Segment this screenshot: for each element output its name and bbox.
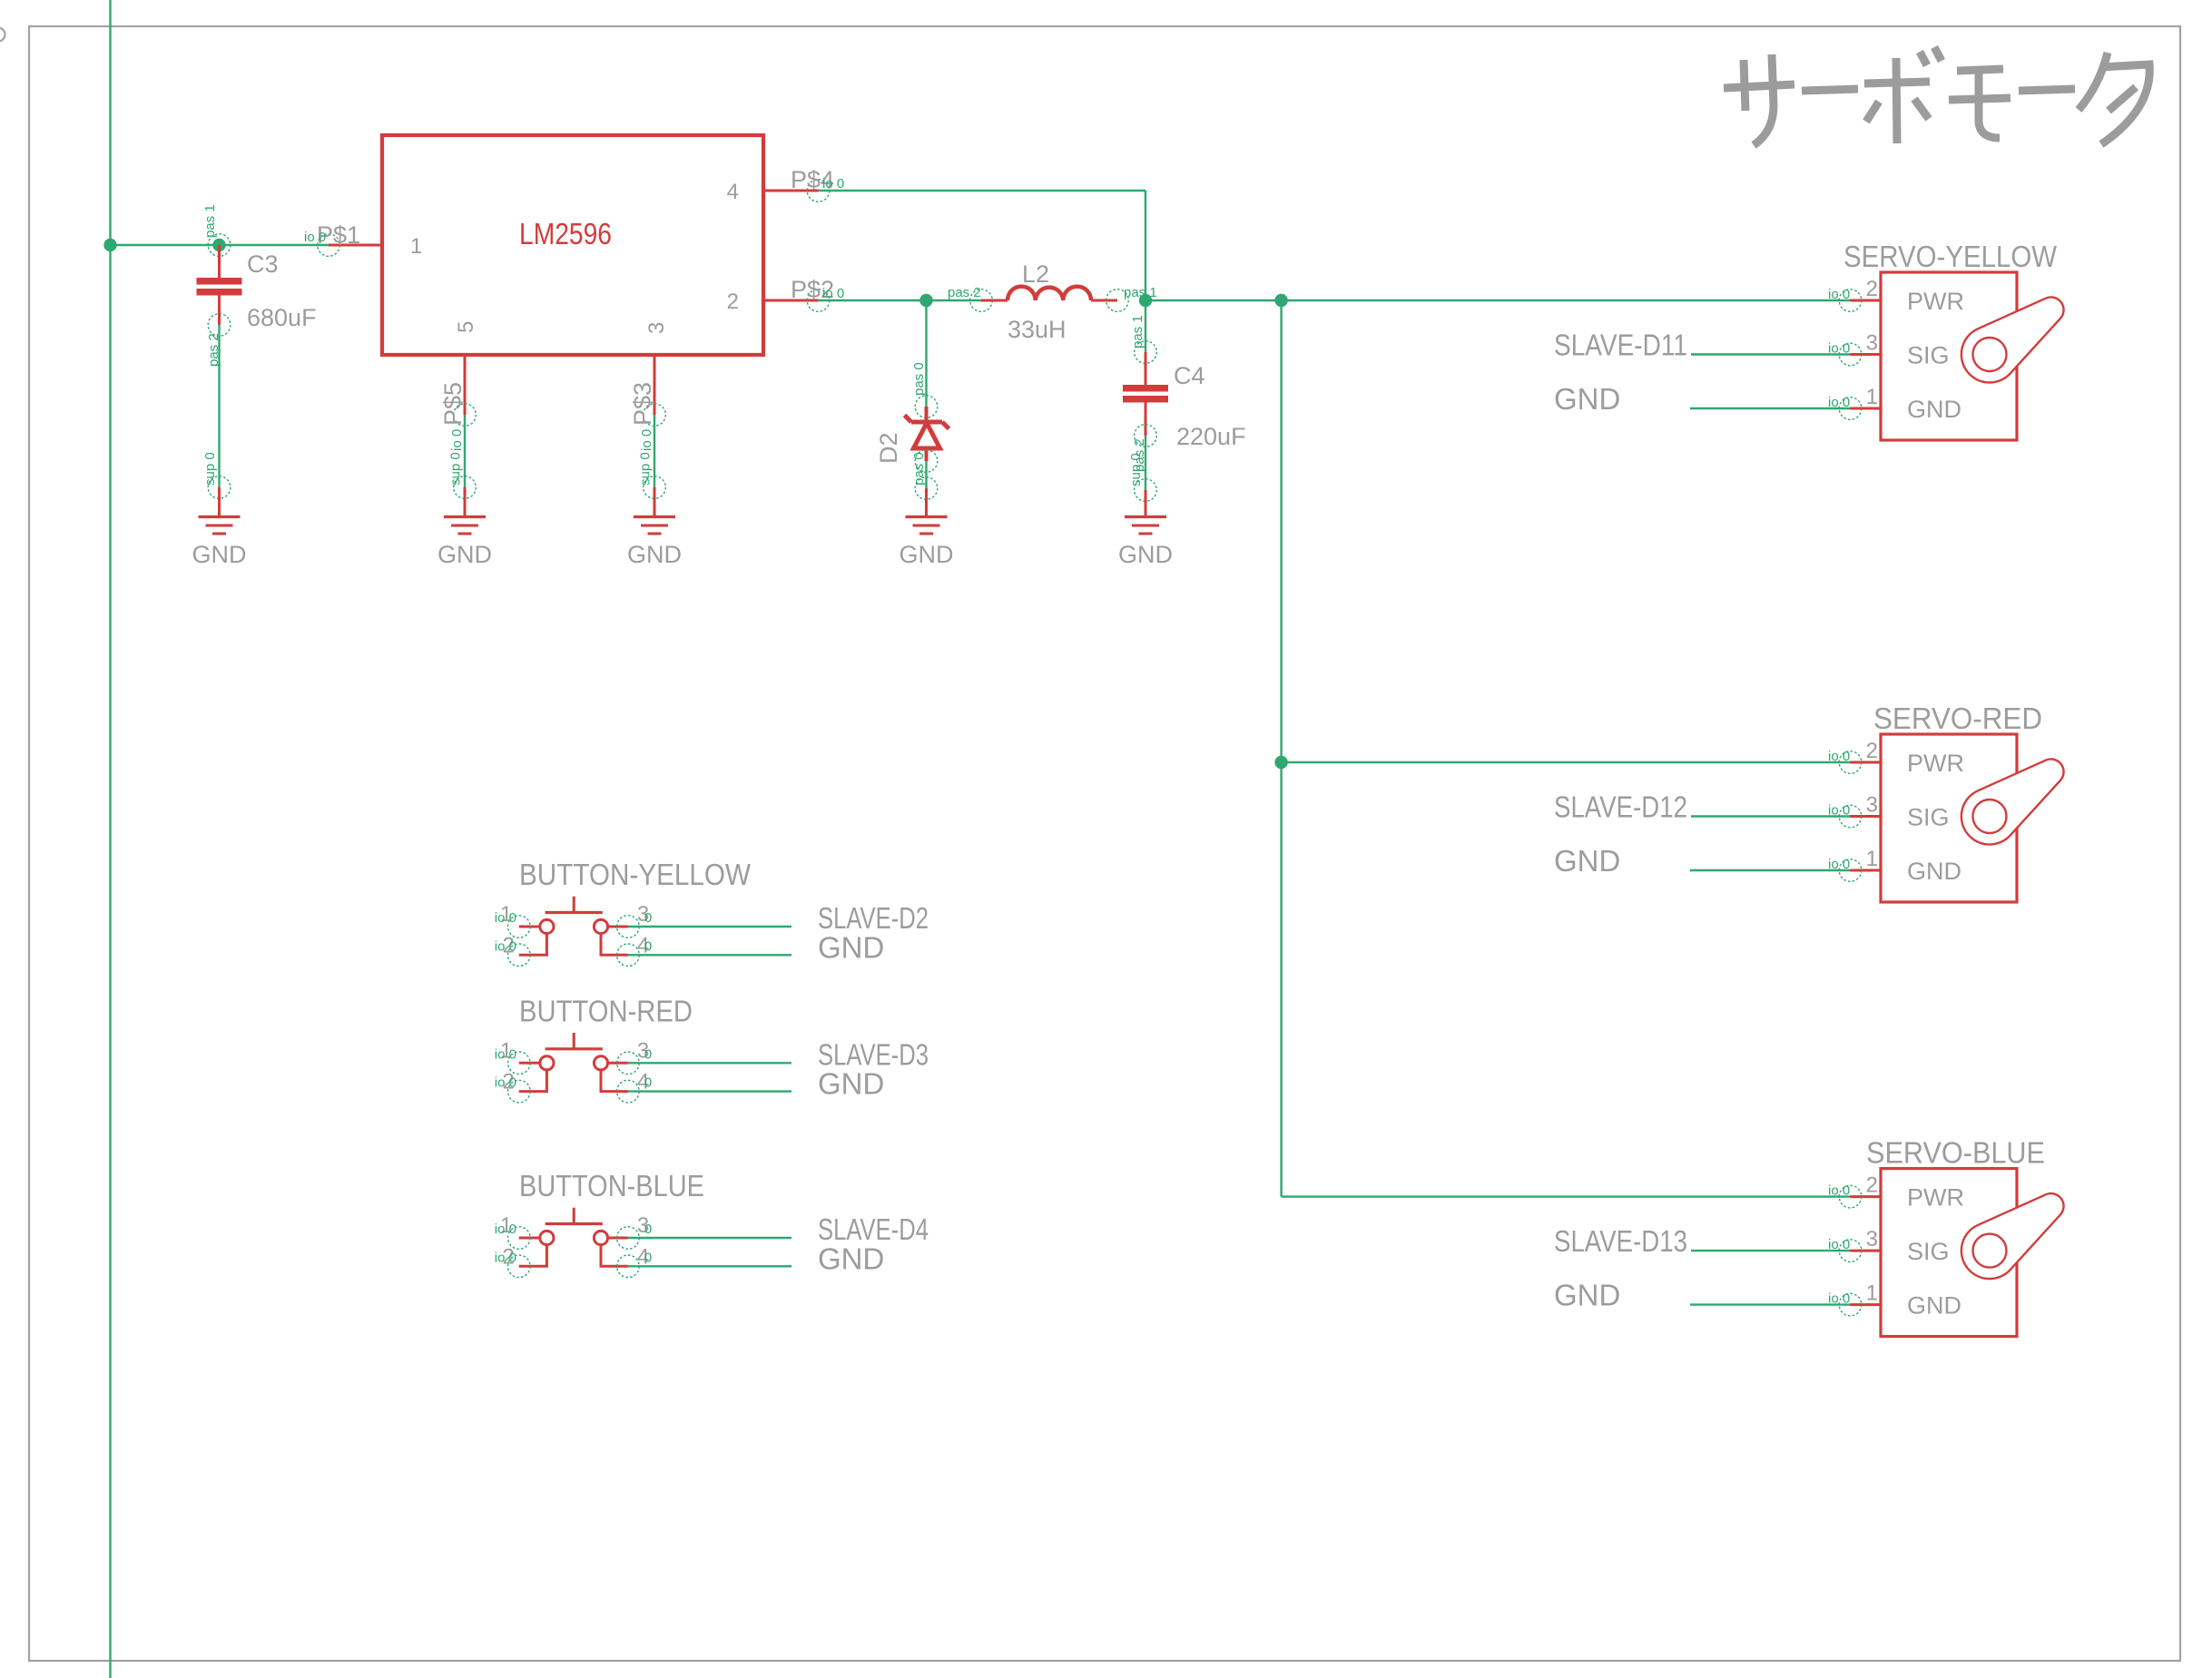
svg-text:LM2596: LM2596 bbox=[519, 217, 612, 250]
svg-text:pas 0: pas 0 bbox=[911, 362, 927, 396]
SERVO-RED pin 1 GND bbox=[1851, 869, 1882, 872]
svg-text:pas 1: pas 1 bbox=[202, 204, 218, 238]
svg-text:5: 5 bbox=[454, 321, 478, 333]
wire gnd net bbox=[628, 1265, 791, 1267]
svg-text:io 0: io 0 bbox=[1828, 1183, 1850, 1199]
svg-text:BUTTON-YELLOW: BUTTON-YELLOW bbox=[519, 858, 752, 891]
BUTTON-YELLOW pin 1 bbox=[519, 926, 540, 928]
SERVO-RED servo horn icon bbox=[1961, 759, 2064, 844]
svg-text:SIG: SIG bbox=[1907, 1238, 1950, 1265]
svg-text:33uH: 33uH bbox=[1008, 316, 1067, 343]
SERVO-YELLOW pin 3 SIG bbox=[1851, 353, 1882, 356]
svg-text:C3: C3 bbox=[247, 250, 279, 278]
BUTTON-RED actuator bbox=[573, 1033, 575, 1048]
wire gnd net bbox=[628, 954, 791, 956]
svg-text:sup 0: sup 0 bbox=[448, 452, 464, 486]
svg-text:pas 2: pas 2 bbox=[948, 285, 981, 300]
svg-text:0: 0 bbox=[644, 910, 652, 926]
svg-text:io 0: io 0 bbox=[822, 286, 844, 301]
svg-text:io 0: io 0 bbox=[495, 1075, 516, 1091]
SERVO-BLUE pin 3 SIG bbox=[1851, 1250, 1882, 1252]
wire GND stub bbox=[1690, 407, 1851, 409]
BUTTON-RED pin 1 bbox=[519, 1062, 540, 1065]
LM2596 pin 4 P$4 bbox=[763, 190, 819, 192]
svg-text:PWR: PWR bbox=[1907, 750, 1964, 777]
wire P$5 to GND bbox=[464, 415, 466, 487]
svg-text:220uF: 220uF bbox=[1176, 423, 1246, 450]
svg-text:io 0: io 0 bbox=[495, 1250, 516, 1265]
svg-text:GND: GND bbox=[818, 1067, 884, 1101]
svg-text:GND: GND bbox=[627, 541, 682, 568]
LM2596 pin 2 P$2 bbox=[763, 299, 819, 302]
svg-text:sup 0: sup 0 bbox=[638, 452, 654, 486]
svg-text:io 0: io 0 bbox=[1828, 749, 1850, 764]
svg-text:GND: GND bbox=[1118, 541, 1173, 568]
svg-text:SLAVE-D13: SLAVE-D13 bbox=[1554, 1224, 1687, 1258]
svg-text:io 0: io 0 bbox=[495, 1046, 516, 1062]
BUTTON-YELLOW pin 2 bbox=[546, 934, 548, 956]
wire SLAVE-D13 bbox=[1691, 1250, 1851, 1251]
wire GND stub bbox=[1690, 869, 1851, 871]
svg-text:0: 0 bbox=[644, 1046, 652, 1062]
title サーボモータ (drawn) bbox=[1724, 47, 2149, 145]
svg-text:GND: GND bbox=[1554, 382, 1620, 416]
wire SLAVE-D3 net bbox=[628, 1062, 791, 1064]
wire GND stub bbox=[1690, 1303, 1851, 1305]
svg-text:1: 1 bbox=[410, 234, 422, 259]
wire to SERVO-BLUE PWR bbox=[1282, 1195, 1851, 1197]
svg-text:BUTTON-BLUE: BUTTON-BLUE bbox=[519, 1169, 704, 1202]
node VOUT junction at C4 bbox=[1139, 294, 1152, 307]
svg-text:SLAVE-D11: SLAVE-D11 bbox=[1554, 329, 1687, 362]
svg-text:SIG: SIG bbox=[1907, 804, 1950, 831]
svg-text:SERVO-YELLOW: SERVO-YELLOW bbox=[1843, 240, 2058, 273]
BUTTON-BLUE pin 4 bbox=[600, 1245, 603, 1267]
frame corner marker bbox=[0, 28, 5, 42]
svg-text:0: 0 bbox=[644, 1075, 652, 1091]
node SW junction bbox=[919, 294, 932, 307]
capacitor C3 bbox=[208, 234, 231, 257]
svg-text:PWR: PWR bbox=[1907, 288, 1964, 315]
svg-text:io 0: io 0 bbox=[304, 230, 326, 245]
svg-text:SIG: SIG bbox=[1907, 342, 1950, 369]
svg-text:GND: GND bbox=[818, 930, 884, 964]
wire C4 to GND bbox=[1145, 436, 1146, 490]
wire SLAVE-D12 bbox=[1691, 815, 1851, 817]
svg-text:GND: GND bbox=[192, 541, 247, 568]
svg-text:SLAVE-D12: SLAVE-D12 bbox=[1554, 790, 1687, 824]
wire VIN trunk vertical bbox=[109, 0, 111, 1678]
wire P$3 to GND bbox=[654, 415, 655, 487]
svg-text:3: 3 bbox=[1866, 793, 1878, 818]
svg-text:SERVO-BLUE: SERVO-BLUE bbox=[1866, 1136, 2045, 1170]
capacitor C4 bbox=[1135, 341, 1157, 364]
BUTTON-RED pin 2 bbox=[546, 1070, 548, 1092]
svg-text:BUTTON-RED: BUTTON-RED bbox=[519, 994, 693, 1027]
wire down to D2 bbox=[925, 300, 927, 407]
svg-text:1: 1 bbox=[1866, 1281, 1878, 1306]
wire SLAVE-D11 bbox=[1691, 353, 1851, 355]
ground symbol at x=721 bbox=[634, 515, 675, 518]
LM2596 pin P$5 bbox=[464, 355, 467, 415]
SERVO-BLUE pin 1 GND bbox=[1851, 1303, 1882, 1306]
svg-text:680uF: 680uF bbox=[247, 304, 317, 331]
svg-text:sup 0: sup 0 bbox=[202, 452, 218, 486]
BUTTON-BLUE pin 1 bbox=[519, 1237, 540, 1240]
wire bus trunk down bbox=[1280, 300, 1282, 1197]
svg-text:io 0: io 0 bbox=[495, 938, 516, 954]
wire junction to C4 bbox=[1145, 300, 1146, 352]
svg-text:P$3: P$3 bbox=[629, 382, 656, 426]
node bus junction servo-red bbox=[1274, 756, 1287, 769]
svg-text:2: 2 bbox=[1866, 1173, 1878, 1198]
svg-text:0: 0 bbox=[644, 1250, 652, 1265]
svg-text:GND: GND bbox=[1554, 844, 1620, 878]
svg-text:P$5: P$5 bbox=[439, 382, 467, 426]
svg-text:2: 2 bbox=[727, 289, 739, 314]
wire SLAVE-D4 net bbox=[628, 1237, 791, 1239]
svg-text:3: 3 bbox=[644, 322, 669, 334]
svg-text:GND: GND bbox=[437, 541, 492, 568]
wire C3 to GND bbox=[218, 325, 220, 487]
wire VIN to C3/P$1 bbox=[111, 244, 329, 246]
ground symbol at x=241.5 bbox=[199, 515, 241, 518]
svg-text:0: 0 bbox=[644, 1222, 652, 1237]
SERVO-YELLOW pin 1 GND bbox=[1851, 407, 1882, 410]
wire SLAVE-D2 net bbox=[628, 926, 791, 927]
svg-text:GND: GND bbox=[1907, 858, 1961, 885]
ground symbol at x=1020.5 bbox=[906, 515, 948, 518]
SERVO-YELLOW servo horn icon bbox=[1961, 297, 2064, 382]
wire D2 to GND bbox=[925, 461, 927, 488]
svg-text:GND: GND bbox=[1907, 396, 1961, 423]
svg-text:C4: C4 bbox=[1174, 362, 1205, 389]
BUTTON-BLUE pin 2 bbox=[546, 1245, 548, 1267]
svg-text:GND: GND bbox=[1907, 1292, 1961, 1320]
ground symbol at x=512 bbox=[444, 515, 486, 518]
svg-text:io 0: io 0 bbox=[639, 429, 654, 451]
svg-text:io 0: io 0 bbox=[822, 176, 844, 191]
ground symbol at x=1262 bbox=[1125, 515, 1166, 518]
BUTTON-BLUE actuator bbox=[573, 1208, 575, 1223]
wire P$2 to L2 bbox=[819, 299, 982, 301]
SERVO-YELLOW pin 2 PWR bbox=[1851, 299, 1882, 302]
svg-text:D2: D2 bbox=[875, 432, 902, 464]
svg-text:0: 0 bbox=[644, 938, 652, 954]
LM2596 pin P$3 bbox=[654, 355, 656, 415]
svg-text:4: 4 bbox=[727, 180, 739, 204]
svg-text:GND: GND bbox=[1554, 1279, 1620, 1312]
svg-text:3: 3 bbox=[1866, 331, 1878, 356]
wire gnd net bbox=[628, 1090, 791, 1092]
SERVO-RED pin 3 SIG bbox=[1851, 815, 1882, 818]
wire P$4 to C4 node bbox=[819, 190, 1146, 191]
svg-text:GND: GND bbox=[900, 541, 954, 568]
wire to SERVO-RED PWR bbox=[1282, 761, 1851, 763]
op-amp/regulator U LM2596 bbox=[382, 135, 763, 355]
BUTTON-YELLOW actuator bbox=[573, 897, 575, 912]
svg-text:sup 0: sup 0 bbox=[1128, 453, 1144, 486]
svg-text:PWR: PWR bbox=[1907, 1184, 1964, 1212]
svg-text:L2: L2 bbox=[1022, 260, 1049, 288]
BUTTON-YELLOW pin 4 bbox=[600, 934, 603, 956]
svg-text:io 0: io 0 bbox=[1828, 287, 1850, 302]
svg-text:SERVO-RED: SERVO-RED bbox=[1873, 702, 2042, 735]
svg-text:pas 1: pas 1 bbox=[1130, 315, 1145, 348]
svg-text:GND: GND bbox=[818, 1241, 884, 1275]
wire VOUT bus bbox=[1145, 299, 1851, 301]
svg-text:2: 2 bbox=[1866, 277, 1878, 301]
svg-text:2: 2 bbox=[1866, 739, 1878, 763]
BUTTON-RED pin 4 bbox=[600, 1070, 603, 1092]
junction at trunk bbox=[103, 239, 116, 251]
svg-text:io 0: io 0 bbox=[495, 910, 516, 926]
SERVO-RED pin 2 PWR bbox=[1851, 761, 1882, 764]
SERVO-BLUE servo horn icon bbox=[1961, 1193, 2064, 1279]
svg-text:io 0: io 0 bbox=[449, 429, 465, 451]
svg-text:1: 1 bbox=[1866, 385, 1878, 409]
svg-text:io 0: io 0 bbox=[495, 1222, 516, 1237]
node bus junction bbox=[1274, 294, 1287, 307]
svg-text:3: 3 bbox=[1866, 1227, 1878, 1251]
svg-text:1: 1 bbox=[1866, 847, 1878, 871]
inductor L2 bbox=[970, 289, 993, 312]
SERVO-BLUE pin 2 PWR bbox=[1851, 1195, 1882, 1198]
node VIN junction at C3 bbox=[212, 239, 225, 251]
LM2596 pin 1 P$1 bbox=[329, 244, 382, 247]
diode D2 (zener) bbox=[915, 396, 938, 418]
